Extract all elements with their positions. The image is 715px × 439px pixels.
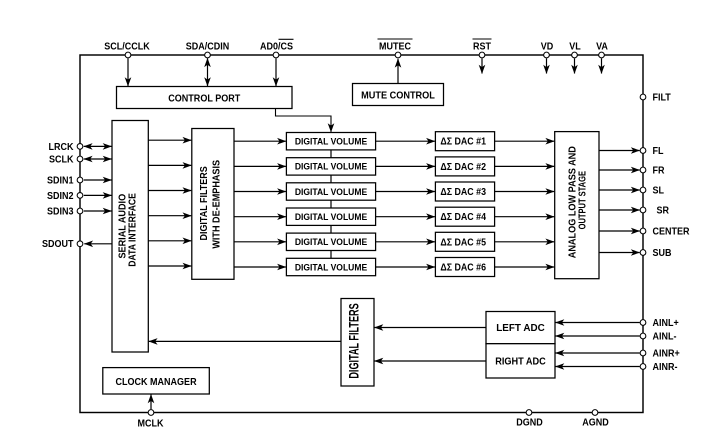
svg-text:MUTEC: MUTEC [379,41,411,53]
svg-text:FL: FL [653,145,664,157]
wire digital volume to DAC 1 [376,140,435,142]
svg-text:RST: RST [473,41,491,53]
pin AINL+ [640,320,646,326]
wire MCLK to clock manager [150,395,152,410]
label SERIAL AUDIO DATA INTERFACE [117,193,139,267]
svg-text:SR: SR [657,205,670,217]
svg-text:DIGITAL VOLUME: DIGITAL VOLUME [295,161,367,171]
digital volume box 5 [286,233,375,250]
wire left ADC to ADC digital filters [375,327,487,329]
svg-text:LEFT ADC: LEFT ADC [496,323,544,334]
svg-text:WITH DE-EMPHASIS: WITH DE-EMPHASIS [211,159,223,248]
pin VA [599,52,605,58]
digital filters with de-emphasis box [192,129,234,280]
svg-text:SCL/CCLK: SCL/CCLK [104,41,150,53]
pin DGND [526,410,532,416]
svg-text:AINL+: AINL+ [653,317,680,329]
wire serial interface to digital filters row 1 [148,139,191,141]
wire analog stage to FR [599,169,640,171]
svg-text:CONTROL PORT: CONTROL PORT [168,93,240,105]
wire digital volume chain 3-4 [330,200,332,208]
wire SDA/CDIN bidirectional [207,58,209,86]
svg-text:ΔΣ DAC #6: ΔΣ DAC #6 [440,262,486,272]
svg-text:ΔΣ DAC #4: ΔΣ DAC #4 [440,212,486,222]
svg-text:CLOCK MANAGER: CLOCK MANAGER [116,377,197,388]
pin SCLK [77,156,83,162]
digital volume box 2 [286,158,375,175]
svg-text:SL: SL [653,185,665,197]
wire AINR+ to ADC [556,352,640,354]
DAC box 2 [435,157,494,176]
pin SDOUT [77,241,83,247]
wire VL into chip [574,58,576,73]
svg-text:VA: VA [596,41,608,53]
pin RST [479,52,485,58]
pin SCL/CCLK [125,52,131,58]
svg-text:SDOUT: SDOUT [42,239,74,251]
wire AINR- to ADC [556,366,640,368]
wire DAC to analog stage 1 [495,140,555,142]
svg-text:DIGITAL VOLUME: DIGITAL VOLUME [295,136,367,146]
svg-text:LRCK: LRCK [49,141,74,153]
svg-text:DIGITAL VOLUME: DIGITAL VOLUME [295,212,367,222]
wire SDIN2 to serial interface [84,194,112,196]
pin SUB [640,250,646,256]
pin AINR+ [640,350,646,356]
overline CS of AD0/CS [279,38,294,40]
wire VA into chip [601,58,603,73]
pin CENTER [640,228,646,234]
svg-text:FR: FR [653,165,665,177]
mute control box [353,84,444,106]
wire mute control to MUTEC [397,59,399,84]
DAC box 3 [435,182,494,201]
svg-text:AINR+: AINR+ [653,348,681,360]
wire DAC to analog stage 6 [495,266,555,268]
pin SDA/CDIN [205,52,211,58]
svg-text:SDA/CDIN: SDA/CDIN [186,41,230,53]
svg-text:DGND: DGND [516,417,543,429]
label ANALOG LOW PASS AND OUTPUT STAGE [567,146,588,258]
svg-text:MUTE CONTROL: MUTE CONTROL [361,90,435,102]
svg-text:AD0/CS: AD0/CS [260,41,293,53]
wire digital filters to digital volume 4 [234,216,286,218]
svg-text:ΔΣ DAC #2: ΔΣ DAC #2 [440,162,486,172]
analog low pass and output stage box [555,132,599,279]
svg-text:AINL-: AINL- [653,331,677,343]
digital volume box 4 [286,208,375,225]
wire serial interface to digital filters row 3 [148,190,191,192]
wire digital volume chain 1-2 [330,150,332,158]
svg-text:DIGITAL VOLUME: DIGITAL VOLUME [295,186,367,196]
pin FR [640,167,646,173]
svg-text:AGND: AGND [582,417,609,429]
DAC box 6 [435,258,494,277]
wire digital volume chain 4-5 [330,225,332,233]
wire serial interface to digital filters row 6 [148,265,191,267]
wire ADC digital filters to serial interface [149,340,341,342]
pin LRCK [77,144,83,150]
wire digital filters to digital volume 5 [234,241,286,243]
overline RST [473,38,492,40]
wire LRCK bidirectional [84,145,112,147]
label DIGITAL FILTERS WITH DE-EMPHASIS [199,159,223,248]
wire AD0/CS to control port [275,58,277,86]
svg-text:SDIN2: SDIN2 [47,190,73,202]
svg-text:MCLK: MCLK [138,418,164,430]
wire SCLK bidirectional [84,158,112,160]
wire analog stage to CENTER [599,230,640,232]
svg-text:OUTPUT STAGE: OUTPUT STAGE [576,171,587,229]
wire digital volume chain 2-3 [330,175,332,183]
digital volume box 6 [286,258,375,275]
control port box [117,87,293,109]
wire serial interface to digital filters row 5 [148,240,191,242]
svg-text:RIGHT ADC: RIGHT ADC [495,356,546,368]
svg-text:CENTER: CENTER [653,226,690,238]
DAC box 1 [435,132,494,151]
wire digital volume to DAC 5 [376,241,435,243]
wire SDIN1 to serial interface [84,179,112,181]
wire DAC to analog stage 3 [495,191,555,193]
overline MUTEC [378,38,413,40]
wire serial interface to digital filters row 4 [148,215,191,217]
svg-text:ΔΣ DAC #1: ΔΣ DAC #1 [440,136,486,146]
pin FILT [640,94,646,100]
wire DAC to analog stage 2 [495,165,555,167]
wire digital volume chain 5-6 [330,251,332,259]
pin AINL- [640,333,646,339]
digital volume box 1 [286,133,375,150]
wire digital filters to digital volume 1 [234,140,286,142]
wire AINL+ to ADC [556,322,640,324]
wire VD into chip [546,58,548,73]
wire control port to digital volume 1 [276,109,332,133]
pin AINR- [640,364,646,370]
wire SDOUT from serial interface [84,243,112,245]
wire right ADC to ADC digital filters [375,360,487,362]
svg-text:VL: VL [569,41,581,53]
wire DAC to analog stage 5 [495,241,555,243]
pin AD0/CS [273,52,279,58]
wire SCL/CCLK to control port [127,58,129,86]
pin SL [640,187,646,193]
wire DAC to analog stage 4 [495,216,555,218]
wire serial interface to digital filters row 2 [148,164,191,166]
wire AINL- to ADC [556,335,640,337]
wire digital volume to DAC 6 [376,266,435,268]
pin SDIN3 [77,208,83,214]
wire analog stage to FL [599,150,640,152]
svg-text:DIGITAL FILTERS: DIGITAL FILTERS [348,303,362,379]
wire digital filters to digital volume 6 [234,266,286,268]
left ADC box [486,312,555,344]
right ADC box [486,344,555,378]
pin MCLK [148,410,154,416]
DAC box 5 [435,232,494,251]
svg-text:SDIN1: SDIN1 [47,175,74,187]
chip outer boundary [80,55,643,413]
svg-text:SCLK: SCLK [49,154,74,166]
pin VD [544,52,550,58]
svg-text:DIGITAL FILTERS: DIGITAL FILTERS [199,166,211,241]
wire analog stage to SUB [599,252,640,254]
svg-text:SUB: SUB [653,247,672,259]
svg-text:ΔΣ DAC #3: ΔΣ DAC #3 [440,187,486,197]
clock manager box [103,368,210,394]
svg-text:DATA INTERFACE: DATA INTERFACE [127,193,139,267]
wire digital volume to DAC 3 [376,191,435,193]
svg-text:DIGITAL VOLUME: DIGITAL VOLUME [295,262,367,272]
serial audio data interface box [112,121,148,353]
svg-text:AINR-: AINR- [653,361,678,373]
wire digital filters to digital volume 2 [234,165,286,167]
pin SR [640,207,646,213]
wire digital volume to DAC 2 [376,165,435,167]
pin MUTEC [395,52,401,58]
wire SDIN3 to serial interface [84,210,112,212]
svg-text:ΔΣ DAC #5: ΔΣ DAC #5 [440,237,486,247]
label DIGITAL FILTERS (ADC) [348,303,362,379]
wire digital volume to DAC 4 [376,216,435,218]
digital volume box 3 [286,183,375,200]
pin FL [640,148,646,154]
pin SDIN2 [77,193,83,199]
pin VL [572,52,578,58]
svg-text:FILT: FILT [653,92,671,104]
wire analog stage to SR [599,209,640,211]
wire analog stage to SL [599,189,640,191]
svg-text:VD: VD [541,41,554,53]
DAC box 4 [435,207,494,226]
ADC digital filters box [341,299,374,387]
wire digital filters to digital volume 3 [234,191,286,193]
svg-text:DIGITAL VOLUME: DIGITAL VOLUME [295,237,367,247]
pin SDIN1 [77,177,83,183]
pin AGND [592,410,598,416]
svg-text:SDIN3: SDIN3 [47,206,73,218]
wire RST into chip [481,58,483,73]
